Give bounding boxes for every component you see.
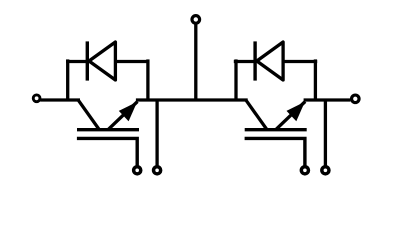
transistor Q2 collector diagonal [246, 100, 267, 130]
wire center bus E1/C2 [136, 98, 248, 101]
wire C1 to Q1 collector [40, 98, 80, 101]
terminal G2 (gate) [301, 167, 308, 174]
transistor Q1 gate bar and drop to G1 [77, 138, 137, 165]
transistor Q2 emitter arrowhead [287, 102, 305, 122]
terminal E2aux (auxiliary emitter) [322, 167, 329, 174]
wire auxiliary emitter E2 drop [324, 100, 327, 166]
terminal C1 (left collector terminal) [33, 95, 40, 102]
diode D1 loop right leg [146, 59, 149, 100]
terminal E1aux (auxiliary emitter) [154, 167, 161, 174]
diode D2 triangle [257, 42, 283, 80]
diode D2 loop left leg [234, 59, 237, 100]
transistor Q2 gate bar and drop to G2 [245, 138, 305, 165]
diode D2 loop right leg [314, 59, 317, 100]
diode D2 loop top line right segment [283, 60, 317, 63]
wire auxiliary emitter E1 drop [155, 100, 158, 166]
diode D1 triangle [89, 42, 115, 80]
terminal E2 (right emitter terminal) [352, 95, 360, 103]
transistor Q1 body bar [77, 128, 139, 131]
transistor Q2 emitter line [276, 102, 306, 130]
transistor Q1 emitter arrowhead [119, 102, 137, 122]
transistor Q1 collector diagonal [78, 100, 99, 130]
terminal AC (top midpoint) [192, 16, 200, 24]
terminal G1 (gate) [134, 167, 141, 174]
diode D1 loop top line left segment [66, 60, 88, 63]
transistor Q2 body bar [245, 128, 307, 131]
diode D1 loop left leg [66, 59, 69, 100]
diode D2 loop top line left segment [234, 60, 256, 63]
diode D2 cathode bar [253, 41, 256, 80]
diode D1 cathode bar [86, 41, 89, 80]
wire Q2 emitter to E2 terminal [304, 98, 351, 101]
transistor Q1 emitter line [108, 102, 138, 130]
wire AC terminal stem [194, 24, 197, 100]
diode D1 loop top line right segment [115, 60, 149, 63]
